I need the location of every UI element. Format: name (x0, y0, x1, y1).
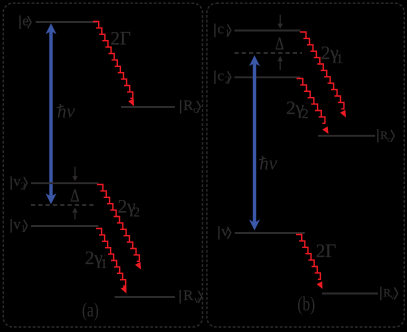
svg-text:c: c (217, 22, 224, 38)
photon double arrow hbar-nu (a) (46, 23, 57, 204)
decay wavy 2gamma_2 (b) (297, 79, 329, 135)
panel (b) dashed border (207, 3, 404, 327)
detuning arrow down (a) (72, 167, 77, 182)
level line |v> (b) (235, 232, 305, 234)
decay wavy 2gamma_1 (a) (96, 229, 127, 294)
photon double arrow hbar-nu (b) (249, 55, 260, 230)
level line |R_v> (a) (115, 296, 175, 298)
label 2gamma_1 (a) (85, 248, 107, 271)
label hbar-nu (b) (259, 154, 278, 175)
label 2gamma_1 (b) (321, 43, 343, 66)
level line |v_1> (a) (31, 225, 98, 227)
label 2gamma_2 (a) (118, 196, 140, 219)
detuning arrow down (b) (278, 15, 283, 29)
level line |v_2> (a) (31, 182, 98, 184)
panel (a) dashed border (3, 3, 202, 327)
virtual level dashed (a) (31, 204, 94, 206)
detuning arrow up (b) (278, 56, 283, 70)
ket label |R_v> (b) (381, 287, 398, 302)
ket label |c_2> (b) (215, 68, 231, 86)
ket label |R_c> (a) (181, 98, 201, 116)
detuning arrow up (a) (72, 207, 77, 219)
label 2Gamma (a) (110, 29, 130, 50)
svg-text:R: R (183, 98, 193, 114)
svg-text:Δ: Δ (70, 185, 79, 206)
decay wavy 2gamma_2 (a) (97, 185, 141, 270)
svg-text:(a): (a) (82, 299, 99, 321)
caption (a) (82, 299, 99, 321)
svg-text:R: R (183, 288, 193, 304)
svg-text:c: c (217, 68, 224, 84)
ket label |c_1> (b) (215, 22, 231, 40)
level line |c_2> (b) (234, 76, 300, 78)
ket label |e> (a) (20, 13, 31, 29)
label Delta (b) (275, 35, 284, 54)
ket label |R_v> (a) (180, 288, 202, 306)
level line |c_1> (b) (234, 30, 300, 32)
ket label |v> (b) (219, 224, 231, 240)
svg-text:hν: hν (57, 102, 76, 123)
svg-text:2Γ: 2Γ (110, 29, 130, 50)
svg-text:c: c (387, 134, 391, 144)
decay wavy 2gamma_1 (b) (300, 32, 346, 118)
virtual level dashed (b) (234, 52, 302, 54)
svg-text:hν: hν (259, 154, 278, 175)
svg-text:(b): (b) (297, 293, 315, 315)
svg-text:Δ: Δ (275, 35, 284, 54)
svg-text:v: v (390, 292, 395, 302)
level line |a_c> (b) (318, 135, 375, 137)
svg-text:2Γ: 2Γ (316, 241, 337, 262)
caption (b) (297, 293, 315, 315)
level line |a_v> (b) (322, 293, 378, 295)
label 2gamma_2 (b) (286, 98, 308, 121)
label Delta (a) (70, 185, 79, 206)
ket label |v_1> (a) (11, 217, 27, 235)
level line |e> (a) (36, 21, 97, 23)
ket label |R_c> (b) (378, 129, 395, 144)
decay wavy 2Gamma (a) (93, 22, 134, 107)
level line |R_c> (a) (121, 106, 175, 108)
decay wavy 2Gamma (b) (296, 235, 323, 290)
label 2Gamma (b) (316, 241, 337, 262)
label hbar-nu (a) (57, 102, 76, 123)
ket label |v_2> (a) (11, 174, 27, 192)
